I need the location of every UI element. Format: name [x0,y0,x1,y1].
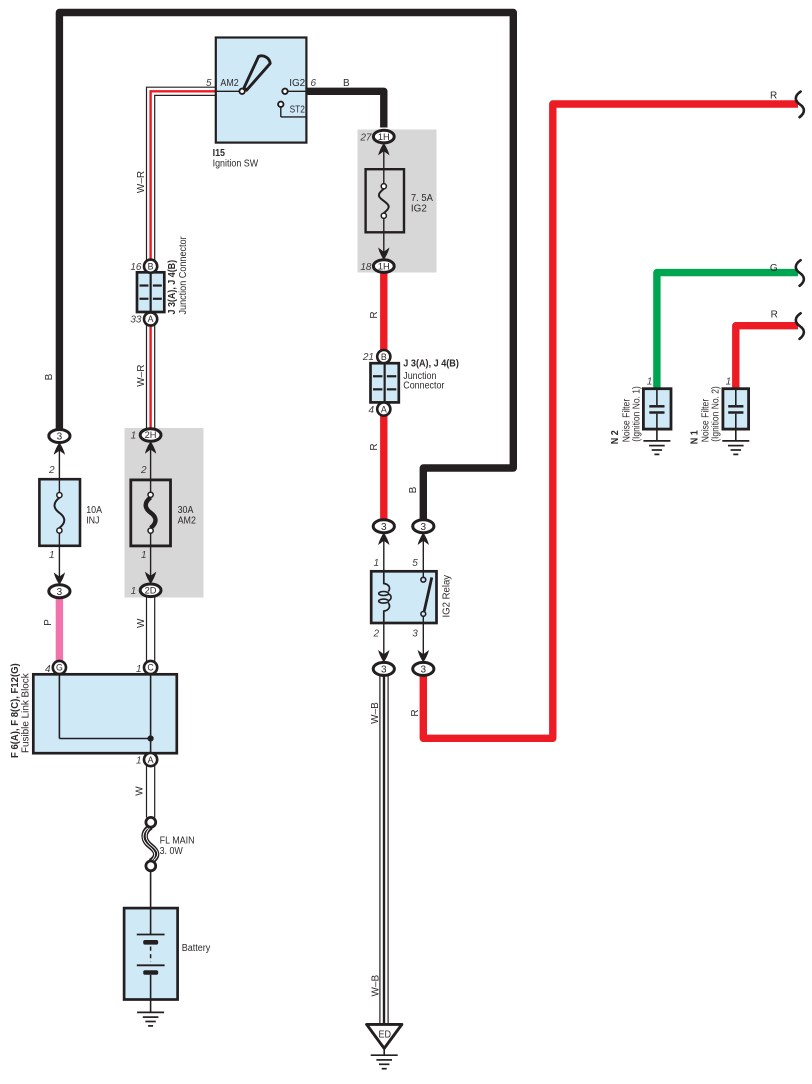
svg-text:AM2: AM2 [178,515,197,526]
svg-text:21: 21 [362,352,374,363]
svg-text:N 1: N 1 [689,430,700,444]
svg-text:AM2: AM2 [220,78,239,89]
svg-text:B: B [381,352,387,362]
svg-text:Fusible Link Block: Fusible Link Block [21,672,32,753]
svg-text:R: R [770,91,777,102]
svg-text:(Ignition No. 2): (Ignition No. 2) [711,386,722,442]
svg-text:2: 2 [48,465,55,476]
svg-text:R: R [771,310,778,321]
svg-text:Junction Connector: Junction Connector [178,236,189,315]
svg-text:3: 3 [412,628,418,639]
svg-text:(Ignition No. 1): (Ignition No. 1) [632,386,643,442]
svg-text:3: 3 [57,587,63,598]
svg-text:3: 3 [57,432,63,443]
svg-text:33: 33 [130,315,142,326]
svg-text:1H: 1H [378,132,390,142]
svg-text:Ignition SW: Ignition SW [213,159,259,170]
svg-text:B: B [408,486,419,493]
svg-text:3: 3 [381,522,387,533]
svg-text:1: 1 [136,755,142,766]
svg-text:2H: 2H [145,430,157,440]
svg-text:R: R [369,443,380,450]
svg-text:P: P [43,619,54,626]
svg-text:INJ: INJ [86,515,99,526]
svg-text:3. 0W: 3. 0W [160,846,184,857]
svg-text:A: A [148,314,154,324]
svg-text:3: 3 [421,522,427,533]
svg-text:10A: 10A [86,505,102,516]
svg-text:N 2: N 2 [610,430,621,444]
svg-text:1: 1 [131,431,137,442]
svg-text:IG2: IG2 [289,78,305,89]
svg-text:ST2: ST2 [290,105,306,116]
svg-text:1H: 1H [378,261,390,271]
svg-text:F 6(A), F 8(C), F12(G): F 6(A), F 8(C), F12(G) [10,663,21,758]
svg-text:B: B [44,373,55,380]
svg-text:R: R [410,709,421,716]
svg-text:1: 1 [726,376,732,387]
svg-text:Battery: Battery [182,943,210,954]
svg-text:1: 1 [131,586,137,597]
svg-text:J 3(A), J 4(B): J 3(A), J 4(B) [167,260,178,315]
svg-text:IG2: IG2 [411,204,427,215]
svg-text:4: 4 [45,664,51,675]
svg-text:2: 2 [140,465,147,476]
svg-text:16: 16 [130,262,142,273]
svg-text:A: A [148,755,154,765]
svg-text:3: 3 [381,665,387,676]
svg-text:1: 1 [373,558,379,569]
svg-text:W–R: W–R [136,365,147,387]
svg-text:7. 5A: 7. 5A [411,193,433,204]
svg-text:W–B: W–B [370,702,381,724]
svg-text:2: 2 [372,628,379,639]
svg-text:3: 3 [421,665,427,676]
svg-text:1: 1 [136,664,142,675]
svg-text:W–R: W–R [136,171,147,193]
svg-text:30A: 30A [178,505,194,516]
svg-text:5: 5 [206,78,212,89]
svg-text:1: 1 [141,550,147,561]
svg-text:A: A [381,404,387,414]
svg-text:W–B: W–B [370,975,381,997]
svg-text:ED: ED [379,1029,392,1040]
svg-text:5: 5 [412,558,418,569]
svg-text:FL MAIN: FL MAIN [160,835,195,846]
svg-text:1: 1 [49,550,55,561]
svg-text:I15: I15 [213,148,226,159]
svg-text:C: C [147,663,154,673]
svg-text:4: 4 [368,405,374,416]
svg-text:G: G [56,663,63,673]
svg-text:18: 18 [360,262,372,273]
svg-text:W: W [135,786,146,796]
svg-text:G: G [770,263,778,274]
svg-text:IG2 Relay: IG2 Relay [442,575,453,618]
svg-text:W: W [136,618,147,628]
svg-text:B: B [343,78,350,89]
svg-text:6: 6 [311,78,317,89]
svg-text:Connector: Connector [403,381,445,392]
svg-text:B: B [148,261,154,271]
svg-text:1: 1 [647,376,653,387]
svg-text:2D: 2D [145,586,157,596]
svg-text:J 3(A), J 4(B): J 3(A), J 4(B) [403,358,459,369]
svg-text:27: 27 [359,132,372,143]
svg-text:R: R [369,311,380,318]
